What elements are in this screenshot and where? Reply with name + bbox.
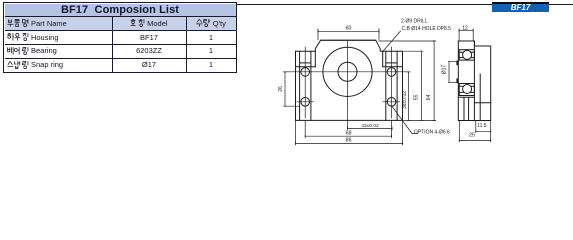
svg-text:43±0.02: 43±0.02 xyxy=(361,123,379,129)
svg-text:55: 55 xyxy=(413,95,419,101)
leader option note xyxy=(393,107,418,134)
table row 2 bearing xyxy=(7,44,111,57)
table row 3 snap ring xyxy=(7,58,111,71)
dimension 68 bottom xyxy=(305,120,391,137)
side view lower bearing section xyxy=(459,84,474,98)
side view upper snap ring xyxy=(456,61,458,66)
leader drill note xyxy=(383,31,400,51)
table row 1 housing xyxy=(7,31,111,44)
svg-text:64: 64 xyxy=(426,95,432,101)
technical drawing svg xyxy=(0,0,573,151)
svg-text:86: 86 xyxy=(345,138,351,144)
table header row texts xyxy=(7,17,111,30)
svg-text:Ø17: Ø17 xyxy=(442,65,448,75)
svg-text:OPTION 4-Ø6.6: OPTION 4-Ø6.6 xyxy=(414,130,450,136)
table title band xyxy=(5,4,236,17)
side view upper bearing section xyxy=(459,50,474,60)
svg-text:C.B Ø14 HOLE DP8.5: C.B Ø14 HOLE DP8.5 xyxy=(402,26,452,32)
front view right bolt hole walls xyxy=(386,51,397,120)
table header band xyxy=(5,16,236,30)
front view left bolt hole walls xyxy=(300,51,311,120)
dimension 12 side top xyxy=(459,29,473,41)
svg-text:25: 25 xyxy=(469,133,475,139)
svg-text:12: 12 xyxy=(462,26,468,32)
svg-text:26: 26 xyxy=(278,86,284,92)
svg-text:68: 68 xyxy=(345,130,351,136)
front view right tab counterbore xyxy=(383,51,403,67)
side view lower snap ring xyxy=(456,78,458,83)
table grid lines xyxy=(5,16,236,17)
svg-text:2-Ø9 DRILL: 2-Ø9 DRILL xyxy=(401,19,428,25)
svg-text:38±0.02: 38±0.02 xyxy=(402,91,408,109)
front view housing body outline xyxy=(296,40,403,120)
dimension 25 side bottom xyxy=(459,121,490,142)
composition table frame xyxy=(3,2,237,73)
dimension 55 right xyxy=(404,51,423,120)
dimension 38 right xyxy=(407,72,410,121)
dimension 26 left xyxy=(284,72,300,106)
dimension 11.5 side bottom xyxy=(476,121,491,133)
dimension 64 right xyxy=(379,41,436,120)
dimension 43 bottom xyxy=(348,120,393,137)
dimension dia 17 side xyxy=(449,61,459,82)
svg-text:11.5: 11.5 xyxy=(477,123,487,129)
BF17 badge top right xyxy=(492,2,549,13)
dimension 50 top xyxy=(318,29,379,40)
front view option holes 4 circles xyxy=(301,68,396,107)
dimension 86 bottom xyxy=(296,121,403,145)
side view internal lines xyxy=(464,74,491,121)
front view left tab counterbore xyxy=(296,51,316,67)
centerlines xyxy=(285,41,410,128)
drawing text labels xyxy=(278,19,487,144)
side view housing outline xyxy=(458,41,490,121)
svg-text:60: 60 xyxy=(346,25,352,31)
front view central bore circles xyxy=(323,47,372,96)
top rule line xyxy=(236,4,573,5)
